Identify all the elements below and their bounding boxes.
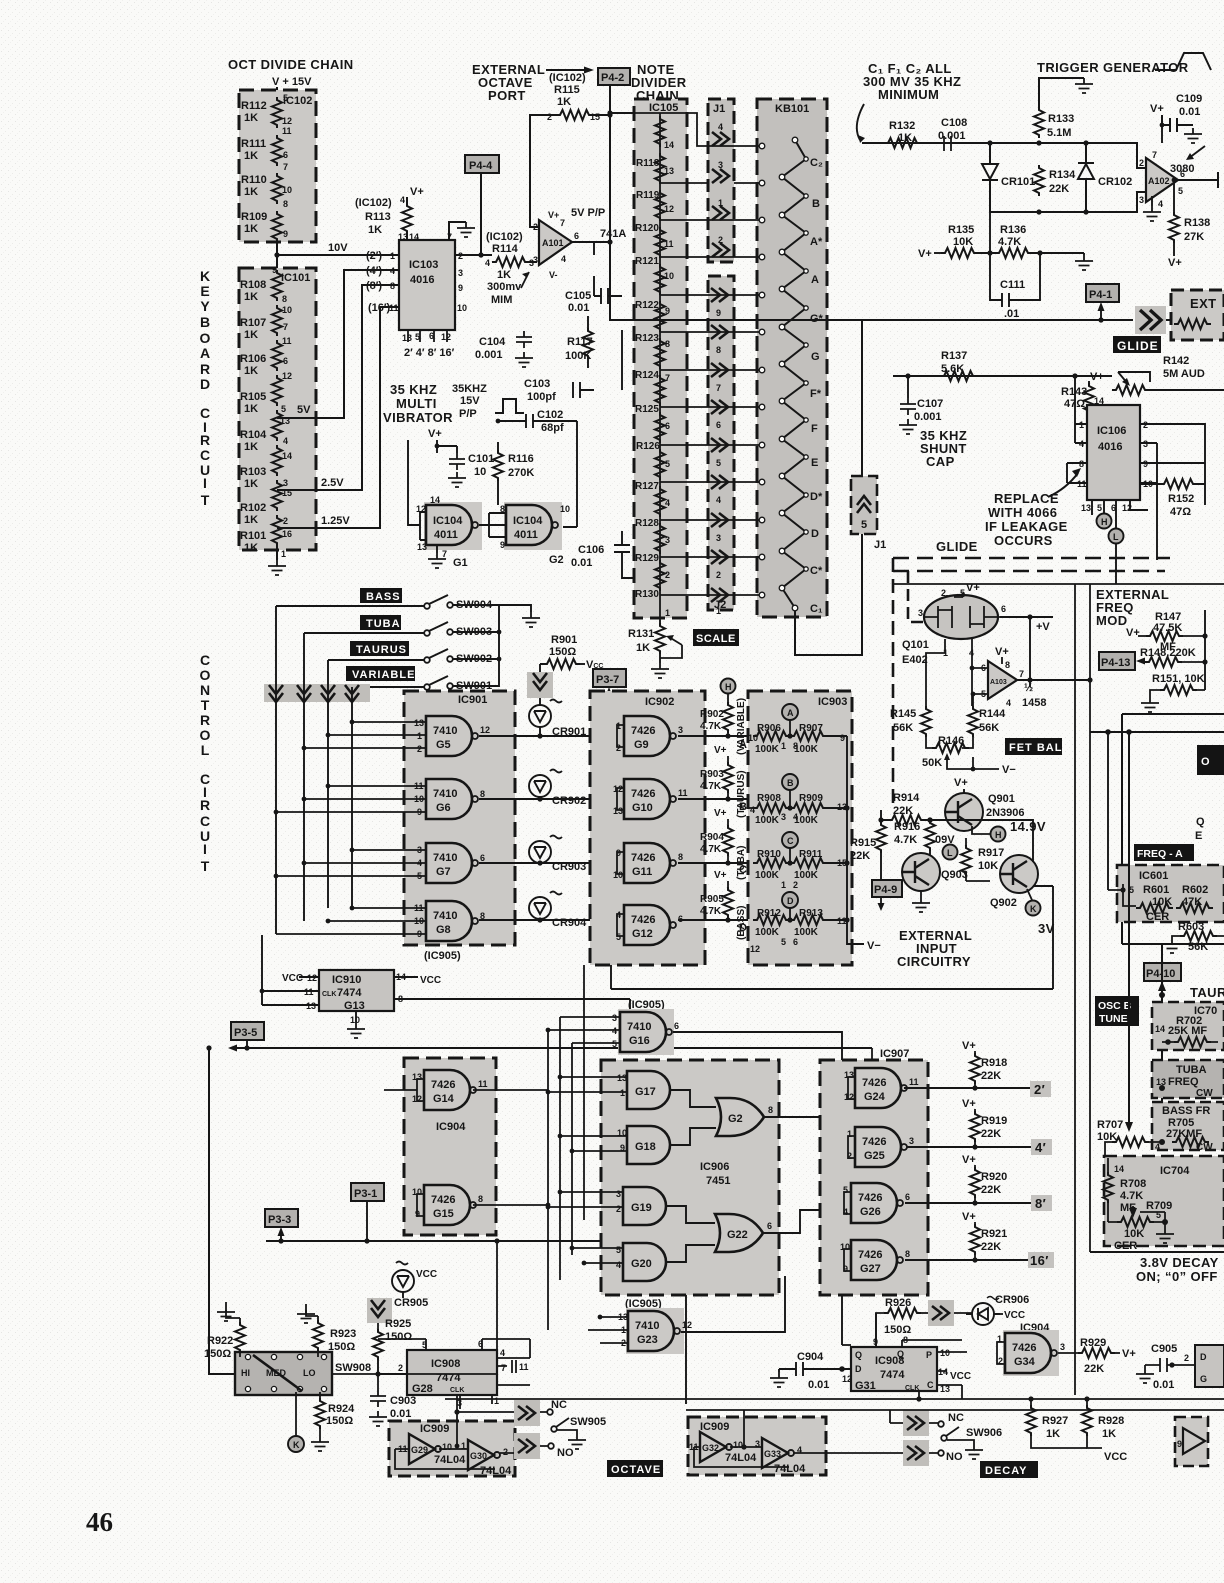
svg-text:6: 6 — [1001, 604, 1006, 614]
svg-text:C111: C111 — [1000, 279, 1025, 291]
svg-text:R131: R131 — [628, 628, 654, 640]
trapezoid waveform symbol — [1155, 53, 1211, 70]
svg-text:47Ω: 47Ω — [1170, 506, 1191, 518]
resistor R104 1K — [272, 410, 282, 441]
svg-text:13: 13 — [1081, 503, 1091, 513]
common wire to ground — [499, 605, 531, 687]
svg-text:0.01: 0.01 — [390, 1408, 411, 1420]
svg-text:10V: 10V — [328, 242, 348, 254]
summing bus to V- — [847, 736, 864, 944]
wire SW908 to P3-1 row — [332, 1241, 497, 1374]
svg-text:BASS: BASS — [366, 591, 401, 603]
svg-text:10: 10 — [350, 1015, 360, 1025]
svg-text:IC104: IC104 — [433, 515, 463, 527]
svg-text:G11: G11 — [632, 866, 652, 878]
G23 output wire — [681, 1276, 785, 1332]
svg-text:CR904: CR904 — [552, 917, 587, 929]
svg-text:C106: C106 — [578, 544, 604, 556]
svg-text:V+: V+ — [548, 210, 559, 220]
svg-text:VCC: VCC — [282, 973, 303, 984]
svg-text:R: R — [200, 361, 210, 377]
svg-text:L: L — [947, 848, 953, 858]
svg-text:6: 6 — [674, 1021, 679, 1031]
gate G6 output row — [479, 798, 624, 800]
svg-text:8: 8 — [1079, 459, 1084, 469]
wire chain to ground — [276, 545, 278, 560]
resistor R116 270K — [493, 450, 503, 481]
svg-text:10K: 10K — [953, 236, 973, 248]
svg-text:R903: R903 — [700, 769, 724, 780]
svg-text:R144: R144 — [979, 708, 1006, 720]
svg-text:P: P — [926, 1350, 932, 1360]
svg-text:8: 8 — [478, 1194, 483, 1204]
label SCALE — [693, 629, 739, 646]
svg-text:56K: 56K — [893, 722, 913, 734]
IC601 block — [1117, 865, 1224, 922]
svg-text:V+: V+ — [962, 1040, 976, 1052]
transistor Q901 2N3906 — [945, 793, 983, 831]
svg-text:6: 6 — [793, 937, 798, 947]
svg-text:10: 10 — [664, 271, 674, 281]
svg-text:A103: A103 — [990, 679, 1007, 686]
IC106 4016 — [1087, 405, 1140, 500]
svg-text:4016: 4016 — [410, 274, 434, 286]
svg-text:6: 6 — [1180, 169, 1185, 179]
svg-text:G22: G22 — [727, 1229, 748, 1241]
resistor R929 22K — [1058, 1352, 1078, 1354]
svg-text:1: 1 — [390, 251, 395, 261]
J2 chevron pin 7 — [711, 363, 728, 377]
svg-text:C903: C903 — [390, 1395, 416, 1407]
svg-text:74L04: 74L04 — [480, 1465, 512, 1477]
svg-text:VCC: VCC — [416, 1269, 437, 1280]
svg-text:R135: R135 — [948, 224, 974, 236]
wire 10V tap — [277, 254, 399, 256]
svg-text:IC904: IC904 — [436, 1121, 466, 1133]
svg-text:E: E — [1195, 830, 1202, 842]
svg-text:MINIMUM: MINIMUM — [878, 87, 939, 102]
svg-text:D: D — [855, 1364, 862, 1374]
external block (edge) — [1171, 290, 1224, 340]
svg-text:8: 8 — [390, 281, 395, 291]
IC106 right stub wires — [1140, 424, 1205, 560]
svg-text:741A: 741A — [600, 228, 626, 240]
svg-text:IC104: IC104 — [513, 515, 543, 527]
IC70x block — [1152, 1002, 1224, 1050]
label FET BAL — [1005, 738, 1062, 755]
svg-text:IC903: IC903 — [818, 696, 847, 708]
svg-text:R905: R905 — [700, 894, 724, 905]
svg-text:6: 6 — [283, 356, 288, 366]
svg-text:Q: Q — [897, 1349, 904, 1359]
svg-text:6: 6 — [767, 1221, 772, 1231]
svg-text:G8: G8 — [436, 924, 451, 936]
svg-text:P/P: P/P — [459, 408, 477, 420]
svg-text:7410: 7410 — [635, 1320, 659, 1332]
resistor R917 10K — [961, 845, 971, 876]
A102 output wire — [1178, 172, 1218, 188]
resistor R110 1K — [272, 173, 282, 204]
resistor R928 1K — [1082, 1405, 1092, 1436]
svg-text:O: O — [200, 727, 211, 743]
svg-text:7426: 7426 — [631, 852, 655, 864]
output 2' with R918 — [904, 1087, 1032, 1089]
svg-text:2: 2 — [716, 570, 721, 580]
nand gate G11 7426 — [624, 843, 676, 883]
svg-text:300mv: 300mv — [487, 281, 522, 293]
connector P4-10 — [1144, 963, 1181, 981]
svg-text:K: K — [293, 1440, 300, 1450]
svg-text:J2: J2 — [714, 599, 726, 611]
svg-text:Q902: Q902 — [990, 897, 1017, 909]
svg-text:C: C — [200, 652, 210, 668]
TUBA FREQ block — [1152, 1060, 1224, 1098]
svg-text:G34: G34 — [1014, 1356, 1036, 1368]
svg-text:10: 10 — [560, 504, 570, 514]
G2 output wire — [764, 1117, 855, 1233]
svg-text:7426: 7426 — [1012, 1342, 1036, 1354]
svg-text:7474: 7474 — [337, 987, 362, 999]
node K — [1026, 901, 1041, 916]
svg-text:+V: +V — [1036, 621, 1050, 633]
J2 chevron pin 1 — [711, 588, 728, 602]
connector J1 pin5 chevron — [851, 476, 877, 534]
svg-text:R146: R146 — [938, 735, 964, 747]
svg-text:1K: 1K — [368, 224, 382, 236]
svg-text:11: 11 — [282, 336, 292, 346]
svg-text:R708: R708 — [1120, 1178, 1146, 1190]
svg-text:R918: R918 — [981, 1057, 1007, 1069]
svg-text:G30: G30 — [470, 1451, 487, 1461]
svg-text:3: 3 — [678, 725, 683, 735]
svg-text:H: H — [995, 830, 1002, 840]
svg-text:5: 5 — [665, 459, 670, 469]
svg-text:2: 2 — [665, 570, 670, 580]
resistor R915 22K — [876, 822, 886, 853]
svg-text:T: T — [201, 697, 210, 713]
svg-text:R102: R102 — [240, 502, 266, 514]
svg-text:V+: V+ — [1150, 103, 1164, 115]
svg-text:R: R — [200, 432, 210, 448]
svg-text:10: 10 — [613, 870, 623, 880]
svg-text:8: 8 — [1005, 660, 1010, 670]
svg-text:F: F — [811, 423, 818, 435]
svg-text:11: 11 — [282, 126, 292, 136]
svg-text:0.01: 0.01 — [571, 557, 592, 569]
or gate G2 — [716, 1098, 764, 1136]
svg-text:9: 9 — [458, 283, 463, 293]
svg-text:3: 3 — [918, 608, 923, 618]
svg-text:25K MF: 25K MF — [1168, 1025, 1207, 1037]
input mesh verticals — [548, 965, 584, 1330]
long taurus vertical — [1161, 944, 1163, 1142]
svg-text:R110: R110 — [241, 174, 267, 186]
svg-text:12: 12 — [282, 371, 292, 381]
svg-text:14: 14 — [1114, 1164, 1124, 1174]
svg-text:5: 5 — [283, 93, 288, 103]
svg-text:12: 12 — [682, 1320, 692, 1330]
svg-text:2: 2 — [793, 880, 798, 890]
long bottom buses — [445, 1398, 1224, 1400]
svg-text:3.8V DECAY: 3.8V DECAY — [1140, 1255, 1219, 1270]
svg-text:V+: V+ — [1168, 257, 1182, 269]
label TAURUS — [350, 641, 409, 656]
resistor R108 1K — [272, 270, 282, 301]
J2 chevron pin 2 — [711, 550, 728, 564]
svg-text:5: 5 — [781, 937, 786, 947]
svg-text:G23: G23 — [637, 1334, 658, 1346]
svg-text:G14: G14 — [433, 1093, 455, 1105]
svg-text:10: 10 — [457, 303, 467, 313]
connector P3-7 — [593, 669, 626, 687]
nand gate G6 7410 — [426, 779, 478, 819]
svg-text:V+: V+ — [1122, 1348, 1136, 1360]
svg-text:R106: R106 — [240, 353, 266, 365]
svg-text:10K: 10K — [978, 860, 998, 872]
svg-text:4: 4 — [612, 1026, 617, 1036]
svg-text:8: 8 — [282, 294, 287, 304]
svg-text:H: H — [725, 682, 732, 692]
svg-text:3: 3 — [716, 533, 721, 543]
svg-text:A: A — [739, 739, 747, 751]
svg-text:4: 4 — [793, 812, 798, 822]
IC102 resistor block — [239, 90, 316, 242]
svg-text:CR102: CR102 — [1098, 176, 1132, 188]
svg-text:2′: 2′ — [1034, 1082, 1045, 1097]
svg-text:V+: V+ — [428, 428, 442, 440]
svg-text:G25: G25 — [864, 1150, 885, 1162]
svg-text:7410: 7410 — [433, 910, 457, 922]
svg-text:5V P/P: 5V P/P — [571, 207, 605, 219]
svg-text:7426: 7426 — [862, 1136, 886, 1148]
wire sw908 common down row — [378, 1339, 530, 1358]
svg-text:1: 1 — [281, 549, 286, 559]
svg-text:4: 4 — [400, 195, 405, 205]
svg-text:4: 4 — [750, 805, 755, 815]
svg-text:P4-4: P4-4 — [469, 160, 493, 172]
G8 input wires — [276, 908, 426, 934]
resistor R138 27K — [1173, 180, 1175, 212]
svg-text:100pf: 100pf — [527, 391, 556, 403]
wire V+ to A102 pin7 — [1161, 125, 1163, 143]
svg-text:IC906: IC906 — [700, 1161, 729, 1173]
J2 chevron pin 8 — [711, 325, 728, 339]
svg-text:5: 5 — [415, 332, 420, 342]
svg-text:22K: 22K — [981, 1184, 1001, 1196]
capacitor C102 68pf — [498, 420, 531, 422]
svg-text:6: 6 — [716, 420, 721, 430]
svg-text:10: 10 — [282, 185, 292, 195]
svg-text:A: A — [787, 708, 794, 718]
svg-text:R914: R914 — [893, 792, 920, 804]
svg-text:R603: R603 — [1178, 921, 1204, 933]
svg-text:R127: R127 — [635, 481, 659, 492]
IC106 left stub wires — [1067, 376, 1087, 483]
svg-text:(IC102): (IC102) — [355, 197, 392, 209]
svg-text:Q903: Q903 — [941, 869, 968, 881]
resistor R927 1K — [1026, 1405, 1036, 1436]
svg-text:G27: G27 — [860, 1263, 881, 1275]
svg-text:11: 11 — [664, 239, 674, 249]
svg-text:IC907: IC907 — [880, 1048, 909, 1060]
svg-text:3: 3 — [781, 812, 786, 822]
svg-text:R116: R116 — [508, 453, 534, 465]
svg-text:D: D — [739, 922, 747, 934]
svg-text:G16: G16 — [629, 1035, 650, 1047]
svg-text:G26: G26 — [860, 1206, 881, 1218]
svg-text:T: T — [201, 492, 210, 508]
svg-text:G: G — [1200, 1374, 1207, 1384]
solid bus below glide — [893, 583, 1224, 585]
svg-text:1: 1 — [781, 741, 786, 751]
inverter G32 74L04 — [700, 1432, 732, 1462]
svg-text:R908: R908 — [757, 793, 781, 804]
svg-text:TUBA: TUBA — [366, 618, 401, 630]
svg-text:C109: C109 — [1176, 93, 1202, 105]
connector P4-1 — [1086, 284, 1119, 302]
svg-text:0.01: 0.01 — [808, 1379, 829, 1391]
chevron into R925 — [367, 1298, 392, 1323]
svg-text:(IC102): (IC102) — [549, 72, 586, 84]
wire freq bus — [1090, 731, 1224, 733]
svg-text:7: 7 — [283, 322, 288, 332]
svg-text:1458: 1458 — [1022, 697, 1046, 709]
wire op-amp output — [572, 113, 660, 242]
BASS FR block — [1152, 1102, 1224, 1150]
svg-text:CR906: CR906 — [995, 1294, 1029, 1306]
svg-text:CAP: CAP — [926, 454, 955, 469]
svg-text:7426: 7426 — [431, 1194, 455, 1206]
svg-text:VARIABLE: VARIABLE — [352, 669, 415, 681]
svg-text:12: 12 — [613, 784, 623, 794]
svg-text:R138: R138 — [1184, 217, 1210, 229]
svg-text:B: B — [200, 314, 210, 330]
svg-text:3: 3 — [533, 255, 538, 265]
svg-text:R115: R115 — [554, 84, 580, 96]
svg-text:A102: A102 — [1148, 176, 1170, 186]
svg-text:V+: V+ — [966, 582, 980, 594]
svg-text:7: 7 — [716, 383, 721, 393]
svg-text:V+: V+ — [954, 777, 968, 789]
svg-text:7426: 7426 — [631, 725, 655, 737]
svg-text:10: 10 — [940, 1348, 950, 1358]
svg-text:11: 11 — [389, 303, 399, 313]
FET Q101 E402 — [918, 582, 1006, 658]
svg-text:4: 4 — [718, 122, 723, 132]
nand gate G8 7410 — [426, 901, 478, 941]
A103 output wire — [1017, 679, 1090, 681]
svg-text:V+: V+ — [410, 186, 424, 198]
svg-text:1K: 1K — [898, 132, 912, 144]
svg-text:14: 14 — [430, 495, 440, 505]
svg-text:1.25V: 1.25V — [321, 515, 350, 527]
diode CR905 — [392, 1262, 414, 1299]
svg-text:P4-9: P4-9 — [874, 884, 897, 896]
svg-text:4: 4 — [1006, 698, 1011, 708]
svg-text:(IC102): (IC102) — [486, 231, 523, 243]
inverter G33 74L04 — [762, 1438, 794, 1468]
svg-text:5V: 5V — [297, 404, 311, 416]
node A summing resistors R906 R907 100K — [782, 704, 798, 720]
svg-text:V+: V+ — [918, 248, 932, 260]
nand gate G14 7426 — [424, 1070, 476, 1110]
svg-text:R: R — [200, 797, 210, 813]
svg-text:6: 6 — [480, 853, 485, 863]
J2 chevron pin 5 — [711, 438, 728, 452]
svg-text:35KHZ: 35KHZ — [452, 383, 487, 395]
svg-text:22K: 22K — [981, 1070, 1001, 1082]
svg-text:CLK: CLK — [322, 991, 336, 998]
svg-text:11: 11 — [519, 1362, 529, 1372]
transistor Q902 — [1000, 855, 1038, 893]
svg-text:15V: 15V — [460, 395, 480, 407]
label BASS — [360, 588, 402, 603]
svg-text:8: 8 — [905, 1249, 910, 1259]
svg-text:CR902: CR902 — [552, 795, 586, 807]
resistor R144 56K — [968, 706, 978, 737]
op-amp A101 741A — [539, 220, 572, 265]
svg-text:R134: R134 — [1049, 169, 1076, 181]
svg-text:74L04: 74L04 — [774, 1463, 806, 1475]
chevrons to SW906 — [903, 1410, 929, 1436]
svg-text:I: I — [203, 841, 207, 857]
svg-text:12: 12 — [750, 944, 760, 954]
svg-text:4.7K: 4.7K — [894, 834, 917, 846]
svg-text:150Ω: 150Ω — [204, 1348, 231, 1360]
svg-text:R117: R117 — [567, 336, 593, 348]
svg-text:13: 13 — [613, 806, 623, 816]
svg-text:R130: R130 — [635, 589, 659, 600]
svg-text:(4′): (4′) — [366, 265, 382, 277]
resistor R112 1K — [272, 97, 282, 128]
svg-text:1K: 1K — [244, 514, 258, 526]
svg-text:8: 8 — [768, 1105, 773, 1115]
connector P4-13 — [1099, 652, 1135, 670]
nand gate G24 7426 — [855, 1068, 907, 1108]
output 4' with R919 — [907, 1146, 1032, 1148]
svg-text:10: 10 — [442, 1442, 452, 1452]
svg-text:5: 5 — [612, 1039, 617, 1049]
ground below A102 — [1151, 196, 1153, 206]
svg-text:5: 5 — [616, 1245, 621, 1255]
svg-text:IC106: IC106 — [1097, 425, 1126, 437]
svg-text:C905: C905 — [1151, 1343, 1177, 1355]
nand gate G15 7426 — [424, 1185, 476, 1225]
svg-text:KB101: KB101 — [775, 103, 809, 115]
svg-text:R132: R132 — [889, 120, 915, 132]
resistor R922 150ohm — [217, 1306, 235, 1321]
svg-text:14: 14 — [664, 140, 674, 150]
svg-text:G2: G2 — [728, 1113, 743, 1125]
svg-text:R901: R901 — [551, 634, 577, 646]
left margin vertical label KEYBOARD CIRCUIT — [200, 268, 211, 508]
IC103 bottom pins — [408, 330, 447, 342]
top rail wire — [862, 143, 1146, 168]
wire 5V tap — [277, 270, 399, 418]
svg-text:R124: R124 — [635, 370, 659, 381]
svg-text:TUNE: TUNE — [1099, 1013, 1128, 1025]
ground near IC103 — [457, 222, 475, 237]
diode CR102 — [1078, 143, 1094, 212]
svg-text:R911: R911 — [799, 849, 823, 860]
svg-text:3: 3 — [612, 1013, 617, 1023]
node C summing resistors R910 R911 100K — [782, 832, 798, 848]
svg-text:G5: G5 — [436, 739, 451, 751]
svg-text:(16′): (16′) — [368, 302, 391, 314]
svg-text:100K: 100K — [755, 744, 780, 755]
row A resistor R902 4.7K to H — [721, 679, 736, 694]
svg-text:G10: G10 — [632, 802, 653, 814]
